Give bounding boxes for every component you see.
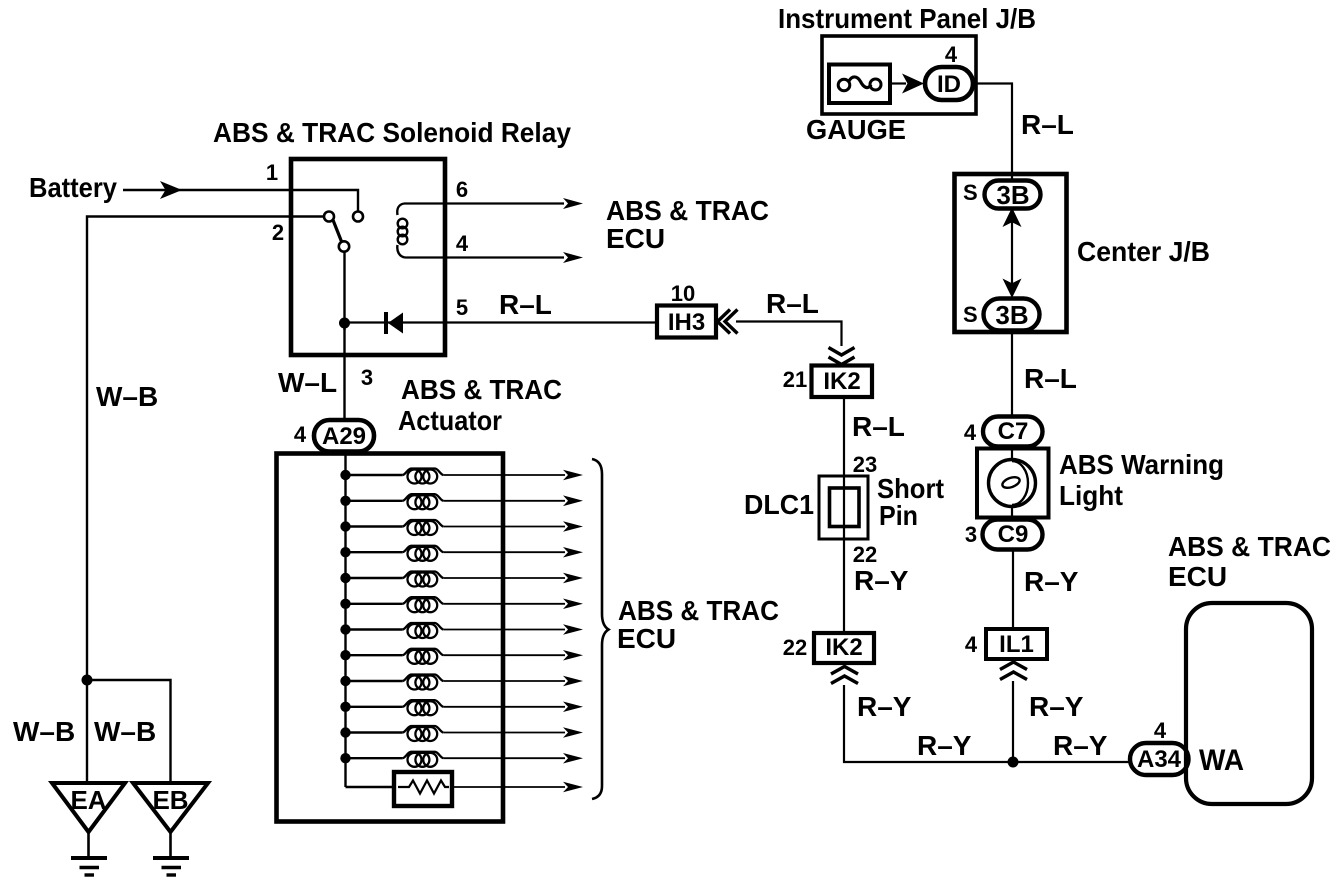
wire between 3B connectors <box>1011 222 1013 284</box>
svg-text:Instrument Panel J/B: Instrument Panel J/B <box>778 3 1036 34</box>
svg-text:C9: C9 <box>998 521 1029 548</box>
svg-text:6: 6 <box>456 177 468 202</box>
wire row 9 to ECU <box>443 680 565 682</box>
svg-text:EB: EB <box>152 785 188 815</box>
junction node row 4 <box>340 547 350 557</box>
connector IL1 <box>986 629 1047 659</box>
connector C7 <box>983 417 1043 447</box>
svg-text:W–B: W–B <box>13 716 75 747</box>
svg-text:ABS & TRAC Solenoid Relay: ABS & TRAC Solenoid Relay <box>213 117 571 148</box>
brace grouping actuator outputs <box>592 459 609 799</box>
junction node row 2 <box>340 496 350 506</box>
wire row 4 to ECU <box>443 551 565 553</box>
wire IH3 to corner to IK2 <box>736 322 842 347</box>
svg-text:1: 1 <box>266 160 278 185</box>
junction block box Instrument Panel J/B <box>822 36 976 114</box>
solenoid coil row 4 <box>346 551 403 553</box>
junction node row 11 <box>340 727 350 737</box>
wire row 2 to ECU <box>443 500 565 502</box>
svg-text:3B: 3B <box>995 300 1028 330</box>
wire row 8 to ECU <box>443 654 565 656</box>
svg-text:EA: EA <box>70 785 106 815</box>
junction node row 1 <box>340 470 350 480</box>
junction block box Center J/B <box>955 174 1067 332</box>
wire pin 2 to ground run <box>87 217 324 681</box>
junction node row 8 <box>340 650 350 660</box>
arrow resistor row <box>563 782 583 793</box>
arrow row 6 <box>563 599 583 610</box>
wire IK2 to DLC1 <box>843 397 845 633</box>
svg-text:WA: WA <box>1199 744 1244 777</box>
connector IK2 upper <box>812 366 873 398</box>
svg-text:Center J/B: Center J/B <box>1077 236 1210 267</box>
svg-text:ABS & TRAC: ABS & TRAC <box>1168 531 1331 562</box>
connector chevrons above IK2 <box>829 348 855 365</box>
connector 3B top <box>985 181 1041 209</box>
wire row 6 to ECU <box>443 603 565 605</box>
connector chevrons below IK2 lower <box>831 667 858 684</box>
DLC1 short pin inner box <box>830 488 860 527</box>
arrow on battery wire <box>160 181 182 199</box>
arrow row 12 <box>563 753 583 764</box>
bulb ABS warning light <box>989 460 1036 507</box>
connector ID <box>925 67 973 100</box>
svg-text:22: 22 <box>853 542 877 567</box>
svg-text:4: 4 <box>945 42 958 67</box>
diode <box>388 313 403 334</box>
svg-text:W–L: W–L <box>278 367 337 398</box>
ground point EB <box>133 783 208 832</box>
svg-text:W–B: W–B <box>96 381 158 412</box>
connector chevrons below IL1 <box>1000 662 1027 680</box>
svg-text:Light: Light <box>1059 480 1123 511</box>
solenoid coil row 9 <box>346 680 403 682</box>
svg-text:W–B: W–B <box>94 716 156 747</box>
svg-text:ECU: ECU <box>617 623 676 654</box>
svg-text:R–Y: R–Y <box>1053 730 1108 761</box>
svg-text:ABS & TRAC: ABS & TRAC <box>401 374 562 405</box>
relay switch contact pin1 <box>353 212 363 222</box>
junction node row 3 <box>340 521 350 531</box>
svg-text:A29: A29 <box>322 423 366 450</box>
junction node row 10 <box>340 702 350 712</box>
svg-text:R–Y: R–Y <box>854 565 909 596</box>
svg-text:ECU: ECU <box>1168 561 1227 592</box>
arrow pin 4 to ECU <box>563 252 583 263</box>
svg-text:2: 2 <box>272 220 284 245</box>
solenoid coil row 6 <box>346 603 403 605</box>
svg-text:S: S <box>963 180 978 205</box>
arrow row 9 <box>563 676 583 687</box>
connector chevrons right of IH3 <box>718 310 738 334</box>
arrow row 7 <box>563 624 583 635</box>
arrow into ID <box>902 74 924 94</box>
wire ID to Center J/B <box>973 84 1012 183</box>
bulb lead bottom <box>1011 505 1013 521</box>
solenoid coil row 1 <box>346 474 403 476</box>
solenoid coil row 2 <box>346 500 403 502</box>
svg-text:R–L: R–L <box>1024 363 1077 394</box>
wire coil pin 4 <box>405 256 564 258</box>
svg-text:Battery: Battery <box>29 172 117 203</box>
relay switch arm <box>333 220 342 242</box>
svg-text:R–Y: R–Y <box>857 691 912 722</box>
solenoid coil row 7 <box>346 628 403 630</box>
actuator box <box>277 454 504 822</box>
junction node row 9 <box>340 676 350 686</box>
wire to EB ground <box>87 680 171 781</box>
junction node row 12 <box>340 753 350 763</box>
connector A29 <box>314 420 374 452</box>
svg-text:3: 3 <box>965 522 977 547</box>
wire row 11 to ECU <box>443 732 565 734</box>
junction node pin 3/5 <box>339 318 350 329</box>
junction node ground split <box>82 675 93 686</box>
svg-text:ID: ID <box>937 71 961 98</box>
svg-text:ABS & TRAC: ABS & TRAC <box>618 595 779 626</box>
svg-text:IH3: IH3 <box>668 309 705 336</box>
svg-text:R–L: R–L <box>499 289 552 320</box>
actuator bus wire <box>344 452 346 788</box>
bulb lead top <box>1011 448 1013 461</box>
arrow row 2 <box>563 495 583 506</box>
arrow up inside Center J/B <box>1003 208 1022 228</box>
wire Battery to pin 1 <box>123 190 358 211</box>
solenoid coil row 12 <box>346 757 403 759</box>
wire row 3 to ECU <box>443 526 565 528</box>
junction node row 5 <box>340 573 350 583</box>
svg-text:4: 4 <box>294 422 307 447</box>
junction node bottom run <box>1008 757 1019 768</box>
arrow row 3 <box>563 521 583 532</box>
solenoid coil row 11 <box>346 731 403 733</box>
arrow row 4 <box>563 547 583 558</box>
svg-text:ECU: ECU <box>606 223 665 254</box>
solenoid coil row 8 <box>346 654 403 656</box>
arrow down inside Center J/B <box>1003 279 1022 299</box>
svg-text:4: 4 <box>965 632 978 657</box>
relay switch common contact <box>339 241 349 251</box>
fuse GAUGE <box>829 65 890 104</box>
ECU box <box>1186 603 1312 804</box>
solenoid coil row 10 <box>346 706 403 708</box>
arrow row 1 <box>563 470 583 481</box>
svg-text:IL1: IL1 <box>999 631 1034 658</box>
svg-text:R–L: R–L <box>852 411 905 442</box>
connector C9 <box>983 520 1043 550</box>
svg-text:3: 3 <box>361 365 373 390</box>
svg-text:A34: A34 <box>1137 746 1182 773</box>
wire coil pin 6 <box>404 202 564 204</box>
relay box <box>291 159 445 355</box>
svg-text:4: 4 <box>964 420 977 445</box>
junction node row 6 <box>340 599 350 609</box>
ground point EA <box>52 783 125 832</box>
wire pin 3 to A29 <box>343 328 345 421</box>
connector A34 <box>1130 743 1189 775</box>
wire junction to diode to pin 5 <box>345 321 658 323</box>
connector DLC1 outer box <box>819 476 868 539</box>
relay switch contact pin2 <box>324 212 334 222</box>
connector IH3 <box>657 306 716 338</box>
relay coil <box>397 204 404 216</box>
svg-text:DLC1: DLC1 <box>744 489 814 520</box>
ABS warning light box <box>977 449 1049 518</box>
arrow row 5 <box>563 573 583 584</box>
svg-text:4: 4 <box>456 231 469 256</box>
arrow row 11 <box>563 727 583 738</box>
wire bus corner to resistor <box>346 786 395 788</box>
svg-text:4: 4 <box>1154 718 1167 743</box>
svg-text:23: 23 <box>853 452 877 477</box>
svg-text:ABS & TRAC: ABS & TRAC <box>606 195 769 226</box>
svg-text:10: 10 <box>671 281 695 306</box>
resistor <box>394 772 452 806</box>
svg-text:Actuator: Actuator <box>398 405 502 436</box>
svg-text:Pin: Pin <box>879 500 918 531</box>
svg-text:GAUGE: GAUGE <box>806 114 906 145</box>
wire row 1 to ECU <box>443 474 565 476</box>
wire Center J/B to C7 <box>1011 331 1013 418</box>
arrow row 10 <box>563 702 583 713</box>
wire resistor to ECU <box>452 786 565 788</box>
wire to EA ground <box>86 680 88 781</box>
wire row 12 to ECU <box>443 757 565 759</box>
connector IK2 lower <box>814 633 874 663</box>
svg-text:R–L: R–L <box>1021 109 1074 140</box>
svg-text:5: 5 <box>456 295 468 320</box>
wire row 5 to ECU <box>443 577 565 579</box>
wire IL1 to bottom junction <box>1012 681 1014 762</box>
svg-text:IK2: IK2 <box>825 634 862 661</box>
svg-text:S: S <box>963 302 978 327</box>
svg-text:21: 21 <box>783 367 807 392</box>
solenoid coil row 3 <box>346 525 403 527</box>
svg-text:3B: 3B <box>996 180 1029 210</box>
svg-text:ABS Warning: ABS Warning <box>1059 449 1224 480</box>
wire fuse to ID <box>890 82 906 84</box>
arrow row 8 <box>563 650 583 661</box>
svg-text:22: 22 <box>783 635 807 660</box>
wire C9 to IL1 <box>1012 550 1014 630</box>
svg-text:C7: C7 <box>998 418 1029 445</box>
wire row 7 to ECU <box>443 629 565 631</box>
svg-text:R–Y: R–Y <box>1029 691 1084 722</box>
connector 3B bottom <box>984 299 1040 331</box>
junction node row 7 <box>340 624 350 634</box>
arrow pin 6 to ECU <box>563 198 583 209</box>
wire switch to junction <box>343 252 345 330</box>
wire row 10 to ECU <box>443 706 565 708</box>
svg-text:R–Y: R–Y <box>917 730 972 761</box>
svg-text:R–Y: R–Y <box>1024 566 1079 597</box>
svg-text:R–L: R–L <box>766 288 819 319</box>
solenoid coil row 5 <box>346 577 403 579</box>
svg-text:IK2: IK2 <box>823 368 860 395</box>
wire IK2 lower to bottom run <box>844 685 1130 762</box>
